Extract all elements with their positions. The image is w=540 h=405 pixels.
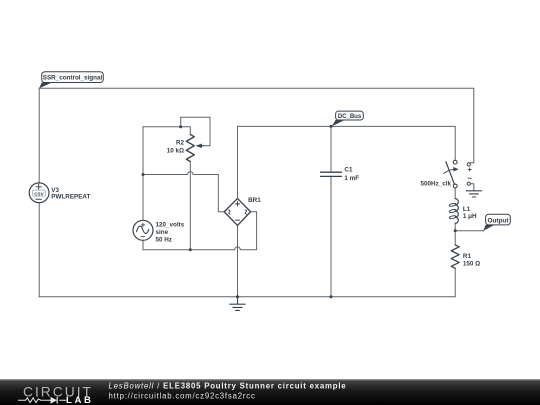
switch control plus glyph [468,168,471,171]
BR1 left tilde [229,210,230,214]
wire R1 bottom lead [454,268,456,296]
wire bottom ground bus [39,296,455,298]
svg-text:500Hz_clk: 500Hz_clk [421,180,452,187]
AC source 120_volts circle [133,220,153,240]
svg-text:R2: R2 [176,139,185,146]
svg-text:sine: sine [156,229,169,236]
flag label DC_Bus [332,111,364,126]
wire control minus to ground [470,184,473,191]
resistor R2 (potentiometer) [186,135,194,162]
footer bar [0,379,540,405]
wire L1 to output node [454,223,456,245]
svg-text:BR1: BR1 [248,197,261,204]
wire C1 top lead [330,126,332,172]
svg-text:LAB: LAB [66,395,94,405]
node junction dot output [454,229,457,232]
AC source sine wave [137,226,149,233]
flag label Output [483,214,510,231]
wire bridge plus to DC bus [238,126,456,198]
wire R2 top feed [143,127,190,135]
switch control minus glyph [468,177,471,179]
svg-text:C1: C1 [344,167,353,174]
node junction dot C1 bottom [330,295,333,298]
capacitor C1 plates [321,172,342,176]
svg-text:LesBowtell / ELE3805 Poultry S: LesBowtell / ELE3805 Poultry Stunner cir… [109,381,347,390]
wire x=143 vertical to AC source [142,127,144,221]
wire mid horizontal with hop to bridge left [143,172,224,212]
svg-text:PWLREPEAT: PWLREPEAT [51,194,90,201]
svg-text:DC_Bus: DC_Bus [338,114,362,120]
svg-text:120_volts: 120_volts [156,221,185,228]
wire C1 bottom lead [330,176,332,296]
inductor L1 [455,199,458,224]
V3 minus sign [36,198,41,200]
BR1 right tilde [245,210,246,214]
wire left branch lower vertical [38,203,40,297]
potentiometer R2 wiper arrow [199,145,205,147]
logo diode triangle [51,397,58,404]
node junction dot R2 bottom [189,248,192,251]
ground control (switch) [466,191,482,197]
svg-text:Output: Output [488,217,510,224]
svg-text:http://circuitlab.com/cz92c3fs: http://circuitlab.com/cz92c3fsa2rcc [109,391,256,400]
BR1 plus [235,202,239,206]
svg-text:CSV: CSV [34,191,44,196]
flag label SSR_control_signal [39,72,103,89]
wire SSR_control_signal top run [39,88,474,163]
logo schematic squiggle [18,397,66,404]
svg-text:50 Hz: 50 Hz [156,236,172,243]
node junction dot x143 [142,173,145,176]
resistor R1 [451,245,459,268]
V3 plus sign [36,184,42,189]
V3 CSV box [33,190,46,196]
AC source minus [141,236,144,238]
wire output tap [455,230,483,232]
svg-text:L1: L1 [463,206,471,213]
switch control plus terminal [467,163,470,166]
node junction dot R2 top [179,125,182,128]
voltage source V3 circle [29,183,49,203]
switch blade [446,162,455,185]
bridge rectifier BR1 diamond [224,198,250,225]
wire switch to L1 [454,188,456,199]
wire AC source bottom with hop to bridge right [143,212,257,250]
wire R2 bottom lead [189,162,191,250]
svg-text:R1: R1 [463,253,472,260]
svg-text:1 mF: 1 mF [344,175,359,182]
ground main (below bridge) [230,297,245,311]
switch control minus terminal [467,182,470,185]
svg-text:150 Ω: 150 Ω [463,260,480,267]
switch control arrow [444,169,455,173]
switch 500Hz_clk bottom terminal [453,184,457,188]
switch 500Hz_clk top terminal [453,160,457,164]
node junction dot C1 top DC bus [330,125,333,128]
wire R2 wiper loop [181,117,210,146]
BR1 minus [236,219,240,221]
node junction dot ground bus at bridge [236,295,239,298]
wire bridge minus to ground bus [237,225,239,296]
svg-text:SSR_control_signal: SSR_control_signal [43,75,103,82]
wire left branch vertical [38,88,40,183]
svg-text:1 μH: 1 μH [463,213,477,220]
AC source plus [141,223,144,226]
svg-text:10 kΩ: 10 kΩ [167,148,184,155]
